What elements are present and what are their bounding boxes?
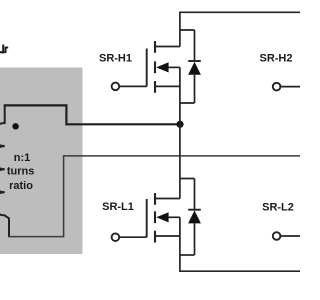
gate wire: [119, 85, 146, 87]
gate terminal circle: [112, 233, 120, 241]
wire: trunk node A to SR-L1 drain: [179, 124, 181, 198]
bottom rail wire: [180, 255, 300, 271]
svg-text:SR-L1: SR-L1: [102, 201, 134, 213]
channel dashes: [154, 193, 156, 243]
wire: secondary bottom lead across to right leg: [8, 156, 300, 237]
body arrow: [166, 66, 180, 68]
gate bar: [146, 49, 148, 87]
gate terminal circle: [112, 83, 120, 91]
wire: secondary top lead to switch node A: [4, 105, 177, 124]
transformer n:1 turns ratio label: [7, 152, 35, 192]
transformer secondary winding (cut off at left edge): [0, 105, 9, 237]
svg-text:n:1: n:1: [14, 152, 31, 164]
source to diode bottom: [180, 103, 195, 124]
source stub: [155, 235, 180, 237]
top rail wire: [180, 12, 300, 46]
gate bar: [146, 199, 148, 237]
source-body tie vertical: [179, 217, 181, 255]
inductor Lr label: [0, 45, 8, 54]
channel dashes: [154, 41, 156, 93]
source to diode bottom: [180, 254, 195, 256]
svg-text:turns: turns: [7, 166, 35, 178]
terminal SR-L2: [262, 201, 300, 239]
body diode of SR-H1: [180, 30, 201, 103]
drain stub: [155, 198, 180, 200]
gate wire: [119, 236, 146, 238]
svg-text:SR-H2: SR-H2: [259, 52, 292, 64]
svg-text:SR-H1: SR-H1: [99, 52, 132, 64]
drain stub: [155, 46, 180, 48]
polarity dot: [12, 123, 18, 129]
source-body tie vertical: [179, 67, 181, 103]
transistor SR-H1: [112, 41, 195, 124]
transformer T1 shaded block: [0, 68, 83, 255]
body arrow: [166, 216, 180, 218]
terminal SR-H2: [259, 52, 300, 90]
body diode of SR-L1: [180, 179, 201, 256]
svg-text:ratio: ratio: [9, 180, 33, 192]
node A junction dot: [176, 121, 183, 128]
source stub: [155, 85, 180, 87]
svg-text:SR-L2: SR-L2: [262, 201, 294, 213]
transistor SR-L1: [112, 193, 195, 255]
